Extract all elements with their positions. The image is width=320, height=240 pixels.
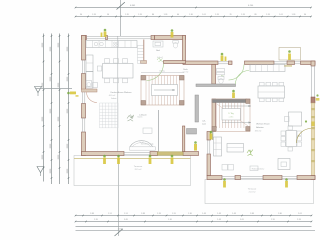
svg-text:89: 89	[254, 14, 256, 16]
desk lower right	[278, 159, 290, 170]
bathroom1 sink and toilet	[153, 41, 178, 49]
svg-text:1.43: 1.43	[217, 219, 221, 221]
svg-text:56: 56	[107, 14, 109, 16]
dimension line bottom 1	[75, 213, 313, 216]
tag bottom left wall 2	[117, 155, 120, 164]
tag top wall 1	[101, 29, 107, 37]
dimension line top inner with ticks	[75, 14, 312, 17]
right block right wall with tan glazing	[311, 61, 315, 180]
left terrace	[74, 156, 191, 186]
tag left wall right block	[194, 141, 197, 150]
svg-text:1.26: 1.26	[92, 14, 96, 16]
svg-text:38.6 m2: 38.6 m2	[255, 130, 262, 132]
svg-text:raum: raum	[202, 123, 207, 125]
svg-text:64: 64	[177, 14, 179, 16]
svg-text:Luft-: Luft-	[202, 120, 206, 123]
tag top wall 2	[171, 29, 174, 37]
svg-text:18 Stg: 18 Stg	[159, 69, 164, 72]
svg-text:17 Stg: 17 Stg	[228, 112, 233, 115]
svg-text:1.35: 1.35	[125, 14, 129, 16]
dining table with chairs	[97, 59, 133, 83]
svg-text:1.88: 1.88	[250, 213, 254, 215]
tag left wall	[67, 92, 78, 97]
label bathroom1	[156, 50, 163, 59]
svg-text:1.26: 1.26	[138, 14, 142, 16]
left block left wall with windows	[82, 36, 86, 156]
left block bottom wall with window and tan door	[82, 152, 199, 156]
cabinet row right block	[250, 65, 285, 72]
svg-text:1.88: 1.88	[90, 213, 94, 215]
door arc entry	[229, 65, 245, 81]
svg-text:Hebeschiebetur: Hebeschiebetur	[252, 167, 265, 170]
right block top wall with windows and door opening	[183, 61, 315, 67]
dimension line bottom 4	[76, 230, 316, 232]
level marker lower	[37, 167, 44, 177]
left vertical dimension line 1	[42, 34, 45, 182]
plant grey mid	[127, 115, 142, 122]
label rug	[139, 113, 147, 116]
door arc bathroom2	[236, 71, 250, 85]
rug grid	[100, 103, 119, 128]
tag stair2 bottom	[210, 131, 213, 140]
svg-text:1.51: 1.51	[108, 213, 112, 215]
svg-text:6.865: 6.865	[130, 5, 136, 7]
right block bottom wall with windows	[207, 176, 315, 180]
svg-text:Schiebetur 4-tlg: Schiebetur 4-tlg	[141, 142, 154, 145]
svg-text:1.43: 1.43	[202, 213, 206, 215]
right block left wall with window	[207, 132, 211, 176]
svg-text:1.26: 1.26	[215, 14, 219, 16]
tag bottom left wall 4	[171, 155, 174, 164]
tag bottom right wall 1	[223, 178, 226, 187]
svg-text:2.20: 2.20	[94, 219, 98, 221]
svg-text:1.26: 1.26	[164, 14, 168, 16]
door arc right wall	[297, 129, 312, 144]
svg-text:Kochen Essen Wohnen: Kochen Essen Wohnen	[111, 92, 132, 94]
bay window with tag	[279, 48, 301, 61]
svg-text:1.30: 1.30	[189, 14, 193, 16]
svg-text:2.26: 2.26	[297, 219, 301, 221]
plant small kitchen	[157, 58, 163, 63]
svg-text:1.55: 1.55	[172, 213, 176, 215]
svg-text:1.26: 1.26	[241, 14, 245, 16]
left vertical dimension line 2	[50, 34, 53, 185]
svg-text:5.10: 5.10	[168, 219, 172, 221]
left vertical dimension line 4	[67, 34, 70, 185]
low cabinets	[222, 165, 258, 171]
svg-text:3.65: 3.65	[124, 219, 128, 221]
svg-text:46.3 m2: 46.3 m2	[109, 95, 116, 97]
svg-text:28.5 m2: 28.5 m2	[135, 169, 142, 171]
tall cabinet	[86, 55, 93, 88]
svg-text:21.0 m2: 21.0 m2	[249, 192, 256, 194]
dining table right block	[258, 82, 285, 101]
svg-text:86: 86	[152, 14, 154, 16]
right terrace	[205, 180, 314, 204]
svg-text:1.26: 1.26	[292, 14, 296, 16]
svg-text:1.26: 1.26	[266, 14, 270, 16]
svg-text:1.43: 1.43	[217, 213, 221, 215]
left block right wall upper	[183, 36, 186, 64]
curved sofa	[130, 128, 156, 150]
tag bottom left wall 3	[149, 155, 152, 164]
svg-text:1.01: 1.01	[202, 14, 206, 16]
meeting table with chairs	[281, 126, 301, 151]
label bottom wall right	[252, 167, 265, 170]
svg-text:Bad: Bad	[156, 50, 160, 52]
svg-text:76: 76	[229, 14, 231, 16]
tag right wall 2	[305, 120, 315, 126]
desk upper right	[285, 112, 302, 126]
bathroom2 fixtures	[217, 69, 225, 84]
svg-text:Arbeiten: Arbeiten	[256, 126, 263, 129]
dimension line top outer	[75, 5, 312, 9]
junction gray wall stub	[187, 129, 197, 135]
svg-text:1.80: 1.80	[278, 213, 282, 215]
label living room	[255, 124, 270, 133]
svg-text:1.30: 1.30	[188, 213, 192, 215]
junction gray wall vertical	[195, 95, 199, 122]
svg-text:Terrasse: Terrasse	[248, 188, 257, 191]
label top bottom wall	[141, 142, 154, 145]
svg-text:94: 94	[304, 14, 306, 16]
stair2 left wall	[212, 99, 216, 132]
plant right	[247, 150, 253, 156]
door arc bathroom1	[147, 64, 164, 81]
tag right top wall	[221, 53, 227, 61]
tag stair2 top	[232, 90, 235, 98]
svg-text:1.88: 1.88	[141, 213, 145, 215]
svg-text:Galerie: Galerie	[111, 97, 117, 100]
svg-text:6.240: 6.240	[248, 5, 254, 7]
stair 1 left block	[141, 69, 184, 105]
stair 2 right block	[212, 99, 251, 140]
svg-text:1.26: 1.26	[157, 213, 161, 215]
interior thin wall	[158, 110, 160, 152]
tag bottom left wall 1	[103, 155, 106, 164]
svg-text:3.05: 3.05	[240, 219, 244, 221]
svg-text:1.43: 1.43	[232, 213, 236, 215]
shelf unit	[138, 46, 144, 64]
section line through plan	[117, 36, 119, 155]
small marks above rug	[111, 97, 117, 100]
sofa	[214, 137, 222, 156]
powder room fixtures	[86, 81, 98, 88]
svg-text:a 18.5: a 18.5	[229, 117, 234, 119]
label hall	[183, 69, 189, 74]
svg-text:1.51: 1.51	[124, 213, 128, 215]
svg-text:Terrasse: Terrasse	[134, 165, 143, 168]
tag right wall	[316, 94, 320, 100]
section cut line top	[117, 0, 125, 36]
svg-text:Kamin: Kamin	[138, 116, 143, 118]
tag bottom right wall 2	[285, 178, 288, 187]
svg-text:4.3 m2: 4.3 m2	[157, 57, 163, 59]
svg-text:Wohnen Essen: Wohnen Essen	[256, 124, 270, 126]
green label entry	[221, 75, 225, 77]
svg-text:2.01: 2.01	[298, 213, 302, 215]
right block bath wall vertical	[212, 65, 216, 85]
left vertical dimension line 3	[58, 34, 61, 185]
dimension line bottom 3	[76, 227, 312, 231]
svg-text:2.95: 2.95	[271, 219, 275, 221]
dimension line bottom 2	[75, 219, 313, 222]
svg-text:94: 94	[80, 14, 82, 16]
label above stairs	[202, 120, 207, 126]
label kitchen	[109, 92, 132, 97]
right block bath bottom wall	[196, 84, 236, 87]
left block right wall lower	[183, 126, 185, 152]
powder room wall and door arc	[82, 89, 98, 103]
bathroom1 walls	[141, 40, 186, 64]
svg-text:1.01: 1.01	[279, 14, 283, 16]
left block top wall with windows	[82, 36, 186, 40]
section cut line bottom	[115, 156, 123, 237]
coffee table	[227, 144, 244, 153]
level marker upper	[35, 87, 73, 97]
kitchen counter	[86, 41, 137, 48]
